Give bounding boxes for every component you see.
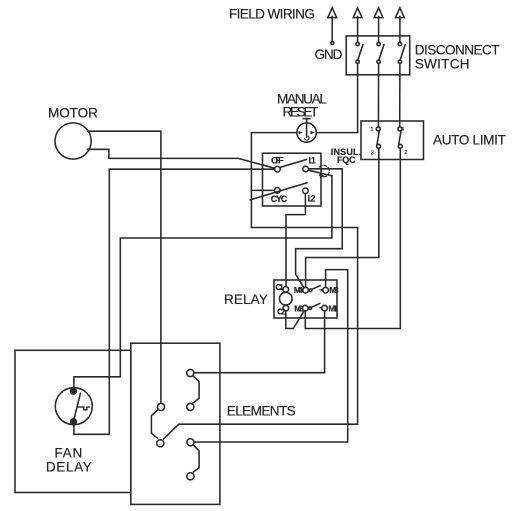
wire OFF to fan delay lower terminal (74, 169, 274, 434)
wire auto limit pin2 to relay M2 (305, 148, 400, 328)
label DISCONNECT SWITCH (415, 43, 500, 72)
auto limit pin numbers (371, 127, 408, 157)
element 2 terminal bottom (157, 440, 164, 447)
auto limit switch 1-3 (376, 127, 380, 148)
relay terminal M3 (323, 287, 329, 293)
svg-text:OFF: OFF (271, 155, 284, 165)
relay terminal M4 (303, 287, 309, 293)
svg-text:CYC: CYC (271, 194, 288, 204)
element 1 terminal top (187, 369, 194, 376)
fan delay device FD (55, 388, 92, 425)
field wiring arrow A1 (gnd) (328, 8, 337, 41)
wire L1 to relay M4 (296, 169, 343, 288)
svg-text:2: 2 (405, 150, 408, 156)
wire relay M1 to elements (195, 311, 325, 372)
terminal L1 (303, 166, 309, 172)
wire manual reset to CYC and elements (cyc net) (164, 133, 358, 439)
relay contact M2-M1 (309, 304, 322, 310)
auto limit box (361, 121, 424, 160)
CYC switch blade (250, 183, 307, 200)
terminal CYC (275, 188, 281, 194)
disconnect pole 3 (398, 42, 405, 63)
relay labels (275, 282, 339, 316)
terminal L2 (303, 188, 309, 194)
wire L1 blade to fan delay upper terminal (74, 170, 332, 388)
svg-text:L2: L2 (308, 193, 316, 203)
wire branch to CYC terminal (251, 189, 274, 191)
element 3 terminal bottom (187, 473, 194, 480)
wire motor terminal 1 to elements (88, 131, 161, 403)
svg-text:RESET: RESET (283, 104, 319, 119)
svg-text:C1: C1 (275, 282, 284, 292)
field wiring arrow A4 (396, 8, 405, 42)
motor M (55, 123, 91, 159)
OFF switch blade (280, 160, 307, 168)
label MANUAL RESET (277, 92, 327, 120)
terminal OFF (275, 166, 281, 172)
svg-text:RELAY: RELAY (224, 292, 268, 307)
element 2 body (151, 410, 158, 439)
svg-text:3: 3 (371, 150, 374, 156)
label INSUL. FQC (331, 147, 362, 165)
manual reset device (297, 119, 316, 143)
label FAN DELAY (46, 446, 92, 475)
wire pole1 down to manual reset (316, 64, 357, 133)
relay box (274, 280, 337, 318)
relay terminal C1 (283, 287, 289, 293)
svg-text:GND: GND (315, 47, 343, 62)
svg-text:FAN: FAN (54, 446, 82, 461)
insul fqc pointer arc (319, 165, 329, 177)
ground terminal GND (331, 42, 334, 45)
element 2 terminal top (157, 403, 164, 410)
svg-text:MOTOR: MOTOR (48, 105, 98, 120)
element 3 body (193, 445, 199, 472)
svg-text:FIELD WIRING: FIELD WIRING (229, 6, 315, 21)
element 3 terminal top (187, 439, 194, 446)
fan delay box (15, 350, 131, 492)
wire relay C2 to M2 (286, 311, 304, 329)
svg-text:4: 4 (401, 127, 404, 133)
disconnect pole 1 (356, 42, 363, 63)
field wiring arrow A3 (374, 8, 383, 42)
element 1 terminal bottom (187, 403, 194, 410)
disconnect switch box (346, 36, 410, 75)
svg-text:DISCONNECT: DISCONNECT (415, 43, 500, 58)
svg-text:M3: M3 (329, 285, 339, 295)
relay terminal M1 (322, 305, 328, 311)
element 1 body (193, 376, 199, 403)
disconnect pole 2 (377, 42, 384, 63)
fan control box FQC (263, 153, 322, 206)
wire relay M3 to elements (195, 270, 348, 442)
relay terminal M2 (303, 305, 309, 311)
relay coil (280, 292, 293, 305)
wire motor terminal 2 to OFF (88, 149, 275, 168)
wire pole3 to auto limit pin4 (399, 64, 401, 127)
elements box (131, 343, 220, 504)
svg-text:ELEMENTS: ELEMENTS (227, 403, 296, 418)
svg-text:M4: M4 (294, 285, 303, 295)
wire pole2 to auto limit pin1 (377, 64, 379, 127)
svg-text:AUTO LIMIT: AUTO LIMIT (433, 133, 506, 148)
svg-text:M2: M2 (294, 303, 303, 313)
wire auto limit pin3 to relay M4 (306, 148, 379, 287)
auto limit switch 4-2 (398, 127, 402, 148)
field wiring arrow A2 (353, 8, 362, 42)
relay contact M4-M3 (309, 286, 322, 292)
wire L2 to relay C1 (286, 194, 305, 286)
svg-text:DELAY: DELAY (46, 460, 92, 475)
svg-text:C2: C2 (277, 307, 286, 317)
svg-text:FQC: FQC (337, 155, 356, 165)
svg-text:SWITCH: SWITCH (415, 57, 470, 72)
svg-text:1: 1 (371, 127, 374, 133)
svg-text:L1: L1 (309, 156, 316, 166)
relay terminal C2 (283, 305, 289, 311)
svg-text:M1: M1 (328, 303, 338, 313)
